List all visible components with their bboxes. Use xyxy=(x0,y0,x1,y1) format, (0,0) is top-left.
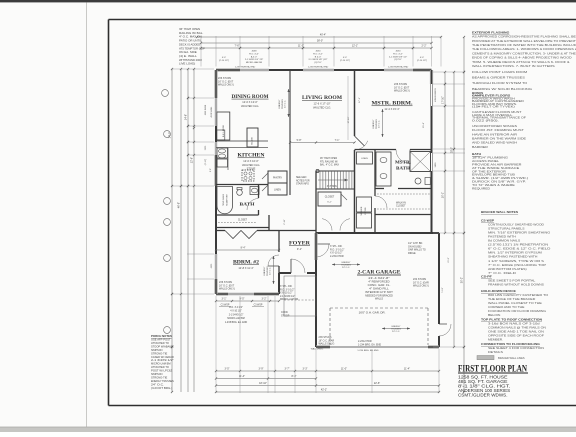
svg-text:12'-6 X 17'-10": 12'-6 X 17'-10" xyxy=(314,102,331,106)
svg-text:CLOSET: CLOSET xyxy=(325,196,335,199)
svg-text:PATIO OR UNTIL: PATIO OR UNTIL xyxy=(179,40,202,43)
svg-text:WALLS ONLY): WALLS ONLY) xyxy=(319,343,335,346)
svg-text:R.O. 3'-0 1/2": R.O. 3'-0 1/2" xyxy=(229,307,243,309)
svg-text:CSMT./GLIDER WDWS.: CSMT./GLIDER WDWS. xyxy=(458,393,508,398)
svg-text:BELOW.: BELOW. xyxy=(488,313,501,317)
svg-text:STAIR INFO: STAIR INFO xyxy=(296,183,309,186)
svg-text:4" O.C. MAX ON: 4" O.C. MAX ON xyxy=(179,36,202,39)
svg-text:ENERGY: ENERGY xyxy=(279,99,281,108)
svg-text:STOVE: STOVE xyxy=(247,167,256,171)
svg-text:BDRM. #2: BDRM. #2 xyxy=(233,261,260,266)
svg-text:WITHSTAND 200#: WITHSTAND 200# xyxy=(179,59,202,62)
svg-text:ON EA. SIDE: ON EA. SIDE xyxy=(179,51,197,54)
svg-text:9'-1": 9'-1" xyxy=(297,247,302,251)
svg-text:AT5 TEMPTOR CLIP: AT5 TEMPTOR CLIP xyxy=(179,47,205,50)
svg-text:BARRIER: BARRIER xyxy=(472,145,488,149)
svg-text:1-2X4 BRG. EA. END: 1-2X4 BRG. EA. END xyxy=(358,343,381,346)
svg-text:KITCHEN: KITCHEN xyxy=(238,153,265,159)
svg-text:BAL. 4" O.C. MAX: BAL. 4" O.C. MAX xyxy=(320,164,339,167)
svg-text:LINEN: LINEN xyxy=(274,190,281,192)
svg-text:MSTR.: MSTR. xyxy=(395,160,411,165)
svg-text:15'-4": 15'-4" xyxy=(423,122,425,128)
svg-text:WALLS ONLY): WALLS ONLY) xyxy=(394,90,410,93)
svg-text:RIDGE: RIDGE xyxy=(408,252,416,255)
svg-text:FOLLOW POINT LOADS FROM: FOLLOW POINT LOADS FROM xyxy=(472,70,528,74)
svg-text:10'-1": 10'-1" xyxy=(442,192,445,198)
svg-text:2'-11": 2'-11" xyxy=(284,219,286,225)
svg-text:(2) PLY: (2) PLY xyxy=(314,62,322,64)
svg-text:WALL INTERSECTIONS. 7- BUILT I: WALL INTERSECTIONS. 7- BUILT IN GUTTERS xyxy=(472,64,555,68)
svg-text:DRYER: DRYER xyxy=(365,207,367,215)
svg-text:(2'-10"): (2'-10") xyxy=(205,158,207,165)
svg-text:NOTES FOR: NOTES FOR xyxy=(296,180,310,182)
svg-text:BEAMS & GIRDER TRUSSES: BEAMS & GIRDER TRUSSES xyxy=(472,76,525,80)
svg-text:WASHER: WASHER xyxy=(360,206,363,215)
svg-text:0.022 (R50).: 0.022 (R50). xyxy=(472,118,499,122)
svg-text:SEE GEN: SEE GEN xyxy=(296,177,307,179)
svg-text:R.O. 4'-6": R.O. 4'-6" xyxy=(249,53,259,55)
svg-text:2'-2": 2'-2" xyxy=(422,45,427,48)
svg-text:LIVING ROOM: LIVING ROOM xyxy=(302,95,342,101)
svg-text:BRACED WALL NOTES: BRACED WALL NOTES xyxy=(481,210,518,214)
svg-text:WALL (HGT): WALL (HGT) xyxy=(311,348,324,351)
svg-text:A 4'-0": A 4'-0" xyxy=(251,55,258,58)
svg-text:MICRO-LAM BM: MICRO-LAM BM xyxy=(227,317,244,320)
svg-text:LINEN: LINEN xyxy=(361,158,368,160)
svg-text:R.O. 4'-5": R.O. 4'-5" xyxy=(393,53,403,55)
svg-text:8'-4": 8'-4" xyxy=(241,247,246,250)
svg-text:18'-10": 18'-10" xyxy=(259,382,267,385)
svg-text:36" HIGH OPEN: 36" HIGH OPEN xyxy=(320,158,337,160)
svg-text:42'-2": 42'-2" xyxy=(321,389,327,392)
svg-text:40'-4": 40'-4" xyxy=(320,34,326,37)
svg-text:DECK IS ADDED: DECK IS ADDED xyxy=(179,43,200,46)
svg-text:8'-4": 8'-4" xyxy=(292,375,297,378)
svg-text:30'-2": 30'-2" xyxy=(461,277,464,283)
svg-text:12'-6": 12'-6" xyxy=(191,157,194,163)
svg-text:FOYER: FOYER xyxy=(289,242,310,247)
svg-text:24" O.C.: 24" O.C. xyxy=(392,331,400,333)
svg-text:DINING ROOM: DINING ROOM xyxy=(232,94,269,100)
svg-text:46'-8": 46'-8" xyxy=(178,202,181,208)
svg-text:(2) PLY: (2) PLY xyxy=(394,59,402,61)
svg-text:3'-9": 3'-9" xyxy=(259,368,264,371)
svg-text:PORCH NOTES: PORCH NOTES xyxy=(151,334,172,338)
svg-text:ISLAND: ISLAND xyxy=(251,137,254,145)
svg-text:2-1 3/4X9 1/8" (1/2": 2-1 3/4X9 1/8" (1/2" xyxy=(308,59,327,61)
svg-text:WALLS ONLY): WALLS ONLY) xyxy=(413,285,429,288)
svg-text:16'0" O.H. GAR. DR.: 16'0" O.H. GAR. DR. xyxy=(359,311,386,315)
svg-text:17'-10": 17'-10" xyxy=(348,116,350,123)
svg-text:3'-3" MIN.: 3'-3" MIN. xyxy=(327,185,338,188)
svg-text:ENERGY: ENERGY xyxy=(264,266,266,275)
svg-text:CLOSET: CLOSET xyxy=(396,205,406,208)
svg-text:12'-1": 12'-1" xyxy=(352,45,358,48)
svg-text:17'-1": 17'-1" xyxy=(359,97,361,103)
svg-text:BATH: BATH xyxy=(396,166,410,171)
svg-text:4068 SLDR.: 4068 SLDR. xyxy=(211,106,213,117)
svg-text:2-1 3/4X9 1/4" 7/8": 2-1 3/4X9 1/4" 7/8" xyxy=(245,59,264,61)
svg-text:2-CAR GARAGE: 2-CAR GARAGE xyxy=(358,270,402,276)
svg-text:1-2X8 HDR EA. END: 1-2X8 HDR EA. END xyxy=(388,65,409,68)
svg-text:TRUSSES: TRUSSES xyxy=(267,265,269,275)
svg-text:VAULTED CLG.: VAULTED CLG. xyxy=(313,105,332,109)
svg-text:(2'-10 1/2"): (2'-10 1/2") xyxy=(340,60,350,62)
svg-text:2-1 5/4X9 1/2": 2-1 5/4X9 1/2" xyxy=(229,314,244,316)
svg-text:WALLS: WALLS xyxy=(375,298,383,301)
svg-text:4'-0": 4'-0" xyxy=(222,57,226,59)
svg-text:MICRO-LAM BM: MICRO-LAM BM xyxy=(280,298,298,301)
svg-text:3'-2": 3'-2" xyxy=(262,298,267,301)
svg-text:1-2X4 BRG. EA. END: 1-2X4 BRG. EA. END xyxy=(357,349,379,352)
svg-text:3'-7": 3'-7" xyxy=(285,368,290,371)
svg-text:RAILING W/ BAL.: RAILING W/ BAL. xyxy=(179,32,204,35)
svg-text:MICRO-LAM DR: MICRO-LAM DR xyxy=(246,61,263,64)
svg-text:14'-6": 14'-6" xyxy=(185,114,188,120)
svg-text:24" O.C.: 24" O.C. xyxy=(379,120,381,128)
svg-text:4'-0": 4'-0" xyxy=(343,57,347,59)
svg-text:4'-0": 4'-0" xyxy=(420,57,424,59)
svg-text:1-2X8 HDR EA. END: 1-2X8 HDR EA. END xyxy=(308,65,329,68)
svg-text:WALLS ONLY): WALLS ONLY) xyxy=(218,84,234,87)
svg-text:12'-6 X 10'-0": 12'-6 X 10'-0" xyxy=(243,159,259,163)
svg-text:4050: 4050 xyxy=(316,51,322,53)
svg-text:DETAILS: DETAILS xyxy=(488,350,503,354)
svg-text:(4) E. WALL: (4) E. WALL xyxy=(179,55,198,58)
svg-text:12'-6 X 13'-0": 12'-6 X 13'-0" xyxy=(242,100,258,104)
svg-text:24" O.C.: 24" O.C. xyxy=(270,267,272,275)
svg-text:7'-6": 7'-6" xyxy=(235,45,240,48)
svg-text:22'-6": 22'-6" xyxy=(374,382,380,385)
svg-text:38'-0": 38'-0" xyxy=(317,40,323,43)
svg-text:4068 SLDR: 4068 SLDR xyxy=(205,104,207,115)
svg-text:5'-8": 5'-8" xyxy=(297,139,302,142)
svg-text:RTL RAILING W/: RTL RAILING W/ xyxy=(320,160,338,163)
svg-text:TRUSSES: TRUSSES xyxy=(376,118,378,128)
svg-text:11'-4": 11'-4" xyxy=(404,368,410,371)
svg-text:1-2X8 BRG. EA. END: 1-2X8 BRG. EA. END xyxy=(225,321,248,324)
svg-text:BATH: BATH xyxy=(240,202,255,207)
svg-text:PANTRY: PANTRY xyxy=(273,177,283,180)
svg-text:5 1/2": 5 1/2" xyxy=(442,287,444,292)
svg-text:11'-4 X 15'-4": 11'-4 X 15'-4" xyxy=(384,107,399,111)
svg-text:7" O.C. FIELD: 7" O.C. FIELD xyxy=(488,271,516,275)
svg-text:21'-8": 21'-8" xyxy=(448,257,450,262)
svg-text:(15# FELT OR TYVEK): (15# FELT OR TYVEK) xyxy=(472,105,515,109)
svg-text:THROUGH FLOOR SYSTEM TO: THROUGH FLOOR SYSTEM TO xyxy=(472,81,528,85)
svg-text:LIVE LOAD): LIVE LOAD) xyxy=(179,63,195,66)
svg-text:B 4'-0": B 4'-0" xyxy=(315,56,322,58)
svg-text:(2'-10 1/2"): (2'-10 1/2") xyxy=(219,60,229,62)
svg-text:TEMP GLASS: TEMP GLASS xyxy=(222,193,225,206)
svg-text:FRAMING WITHOUT HOLD DOWNS: FRAMING WITHOUT HOLD DOWNS xyxy=(488,283,544,287)
svg-text:REQUIRED: REQUIRED xyxy=(472,187,490,191)
svg-text:2'-8": 2'-8" xyxy=(210,168,212,172)
svg-text:1-2X8 HDR EA. END: 1-2X8 HDR EA. END xyxy=(235,65,256,68)
svg-text:24" O.C.: 24" O.C. xyxy=(342,267,350,269)
svg-text:24" O.C.: 24" O.C. xyxy=(285,100,287,108)
svg-text:17'-10": 17'-10" xyxy=(442,96,445,104)
svg-text:36" HIGH OPEN: 36" HIGH OPEN xyxy=(179,28,200,31)
svg-text:11'-0": 11'-0" xyxy=(341,368,347,371)
svg-text:CLOSET: CLOSET xyxy=(238,220,248,222)
svg-text:VAULTED CLG.: VAULTED CLG. xyxy=(242,163,261,167)
svg-text:3'-3": 3'-3" xyxy=(303,368,308,371)
svg-text:3'-1": 3'-1" xyxy=(222,298,227,301)
svg-text:2-2X10 HDR: 2-2X10 HDR xyxy=(330,255,344,258)
svg-text:4050: 4050 xyxy=(396,51,402,53)
svg-text:SLIDER UNIT: SLIDER UNIT xyxy=(227,193,229,206)
svg-text:2-1 3/4X9 1/8" 1/2": 2-1 3/4X9 1/8" 1/2" xyxy=(389,56,408,58)
svg-text:WALLS ONLY): WALLS ONLY) xyxy=(219,288,235,291)
svg-text:9'-5": 9'-5" xyxy=(240,298,245,301)
svg-text:VAULTED CLG.: VAULTED CLG. xyxy=(241,104,260,108)
svg-text:6'-1": 6'-1" xyxy=(327,202,332,204)
svg-text:MEMBER.: MEMBER. xyxy=(488,338,503,342)
svg-text:ENERGY: ENERGY xyxy=(373,119,375,128)
svg-text:MSTR. BDRM.: MSTR. BDRM. xyxy=(372,101,414,107)
svg-text:TRUSSES: TRUSSES xyxy=(282,98,284,108)
svg-text:3'-5": 3'-5" xyxy=(225,368,230,371)
svg-text:(3-FOOT BRG.): (3-FOOT BRG.) xyxy=(151,387,172,390)
svg-text:(2'-10 1/2"): (2'-10 1/2") xyxy=(417,60,427,62)
svg-text:BRACED WALL LINES: BRACED WALL LINES xyxy=(498,356,525,360)
svg-text:4068: 4068 xyxy=(252,51,258,53)
svg-text:12'-8 X 11'-4": 12'-8 X 11'-4" xyxy=(238,266,253,270)
svg-text:7'-1": 7'-1" xyxy=(335,139,340,142)
svg-text:R.O. 4'-5": R.O. 4'-5" xyxy=(313,53,323,55)
svg-text:4050 EGRESS: 4050 EGRESS xyxy=(435,87,437,101)
